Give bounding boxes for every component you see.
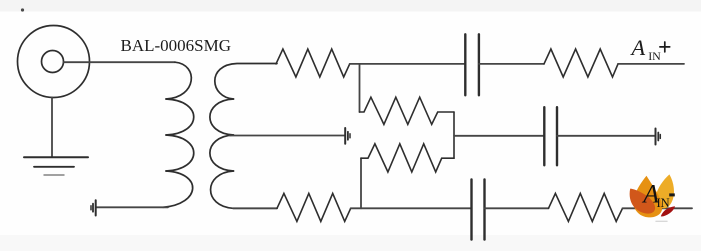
- connector J1 outer shell: [18, 26, 90, 98]
- resistor R1 (top, series): [276, 49, 350, 77]
- wire: C1 to R2: [479, 63, 544, 65]
- logo crescent swoosh: [661, 206, 675, 216]
- transformer T1 secondary winding (4 turns): [210, 64, 277, 209]
- scan tint band bottom: [0, 235, 701, 251]
- ground (earth) under connector: [24, 157, 88, 175]
- wire: tie bar to C2 (middle rail): [454, 135, 544, 137]
- wire: R2 to output A_IN+: [618, 63, 684, 65]
- wire: bottom rail junction up to R4: [360, 158, 362, 208]
- wire: primary bottom to signal ground: [97, 206, 169, 208]
- signal ground (primary return): [91, 200, 96, 215]
- logo flame left petal: [630, 189, 655, 214]
- wire: C3 to R6: [485, 207, 549, 209]
- node A_IN+ plus sign: [660, 42, 670, 52]
- svg-text:IN: IN: [648, 49, 661, 63]
- connector J1 center pin: [42, 51, 64, 73]
- transformer T1 primary winding (3 turns): [163, 62, 194, 207]
- wire: pin to transformer primary top: [64, 61, 176, 63]
- wire: parallel pair right-side tie bar: [453, 112, 455, 158]
- speck artifact: [21, 8, 24, 11]
- wire: R6 to output A_IN-: [623, 207, 693, 209]
- capacitor C1 (top rail): [465, 34, 479, 95]
- resistor R3 (upper of parallel pair): [360, 97, 455, 124]
- svg-text:IN: IN: [657, 196, 670, 210]
- resistor R4 (lower of parallel pair): [361, 144, 454, 172]
- resistor R6 (bottom, series to output): [549, 193, 623, 221]
- capacitor C3 (bottom rail): [472, 179, 485, 239]
- logo flame right petal: [656, 174, 674, 208]
- wire: R5 to C3 (bottom rail): [351, 207, 471, 209]
- svg-text:BAL-0006SMG: BAL-0006SMG: [121, 36, 232, 55]
- node A_IN+ label: [630, 35, 662, 63]
- signal ground (middle rail termination): [656, 129, 661, 145]
- logo watermark remnant: [656, 220, 667, 222]
- wire: secondary bottom to R5: [233, 207, 277, 209]
- wire: secondary center tap: [230, 135, 344, 137]
- wire: top rail junction down to R3: [359, 64, 361, 112]
- node A_IN- label: [641, 179, 675, 210]
- resistor R2 (top, series to output): [544, 49, 618, 77]
- wire: R1 to C1 (top rail): [350, 63, 465, 65]
- resistor R5 (bottom, series): [277, 193, 351, 221]
- signal ground (center tap): [345, 128, 350, 144]
- scan tint band top: [0, 0, 701, 12]
- wire: connector shell to ground: [51, 98, 53, 157]
- capacitor C2 (middle): [544, 107, 557, 165]
- wire: C2 to signal ground: [557, 135, 655, 137]
- logo flame middle petal: [633, 176, 662, 218]
- svg-text:A: A: [630, 35, 646, 60]
